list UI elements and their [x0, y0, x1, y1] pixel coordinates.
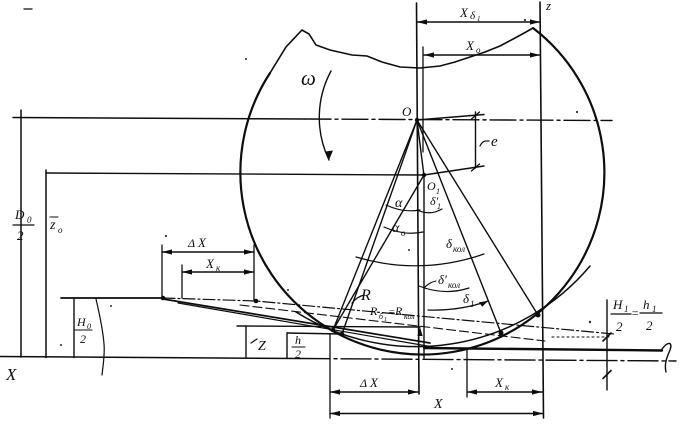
fan line O to entry dot2	[342, 120, 417, 334]
svg-text:0: 0	[27, 215, 32, 225]
alpha0 arc	[384, 227, 423, 233]
node entry corner	[161, 296, 166, 301]
roll center line (horizontal dash-dot through O)	[13, 118, 305, 120]
bottom witness at entry x	[329, 334, 331, 418]
fan line O to D1	[417, 120, 501, 333]
svg-text:X: X	[459, 5, 469, 20]
svg-text:δ: δ	[470, 10, 476, 22]
svg-text:δ: δ	[463, 291, 470, 306]
displaced roll arc (center O 417,119 R227)	[296, 266, 590, 347]
exit strip surface h1/2 level	[424, 348, 662, 351]
svg-text:X: X	[197, 235, 207, 250]
svg-text:кол: кол	[448, 280, 460, 290]
delta1' arc	[417, 209, 442, 213]
O1 level line y=173	[46, 173, 424, 175]
h level line	[287, 333, 342, 334]
alpha0 label	[392, 221, 406, 238]
svg-text:R: R	[369, 304, 378, 318]
node dot2	[340, 332, 345, 337]
svg-text:X: X	[433, 397, 443, 412]
D0/2 dimension line	[20, 110, 22, 357]
svg-text:H: H	[612, 297, 623, 312]
alpha arc	[386, 205, 420, 211]
line O-O1 extended vertical	[417, 120, 424, 358]
Z label with leader	[251, 339, 257, 343]
node dot1	[331, 328, 336, 333]
svg-text:D: D	[14, 207, 25, 222]
vertical through O	[417, 3, 420, 394]
delta_kol arc	[356, 254, 484, 266]
svg-text:z: z	[49, 218, 56, 233]
svg-text:h: h	[295, 333, 301, 347]
arrow on Z level line end	[417, 327, 422, 336]
svg-text:2: 2	[646, 318, 653, 333]
delta1 arc with arrow	[428, 301, 488, 310]
H0/2 dimension line	[73, 298, 75, 358]
svg-text:o: o	[58, 225, 63, 235]
z axis	[540, 2, 544, 418]
D0/2 label	[14, 207, 32, 243]
scan specks	[60, 19, 591, 370]
witness Xk left	[466, 348, 468, 397]
Rb1=Rkol label	[369, 304, 415, 323]
fan line O to entry dot1	[333, 120, 417, 330]
Z dimension vertical	[245, 326, 247, 358]
tick	[603, 371, 611, 379]
tick	[603, 333, 611, 341]
h/2 dimension vertical	[286, 333, 288, 359]
dim X0 top	[424, 54, 540, 56]
svg-text:h: h	[643, 297, 650, 312]
X axis	[0, 357, 300, 359]
svg-text:z: z	[545, 0, 551, 13]
dim dX bottom	[330, 391, 418, 393]
stray mark top-left	[24, 8, 32, 10]
wedge surface line S2	[178, 303, 433, 347]
roll circle (solid, center O1 424,172 R182)	[240, 28, 604, 355]
svg-text:ω: ω	[301, 66, 316, 90]
svg-text:H: H	[76, 315, 87, 329]
dim X bottom	[330, 413, 543, 415]
svg-text:кол: кол	[453, 244, 465, 254]
svg-text:δ′: δ′	[438, 272, 447, 287]
Z0 label	[49, 218, 63, 235]
svg-text:α: α	[395, 196, 403, 211]
svg-text:O: O	[402, 104, 412, 119]
svg-text:o: o	[476, 45, 481, 55]
O1 label	[427, 179, 440, 196]
svg-text:X: X	[369, 375, 379, 390]
break squiggle at right	[662, 343, 671, 372]
strip break wavy	[96, 299, 104, 375]
H1/2 = h1/2 label	[612, 297, 657, 334]
svg-text:X: X	[465, 38, 475, 53]
svg-text:кол: кол	[404, 312, 415, 321]
node on G1	[254, 299, 259, 304]
delta1' label	[430, 194, 441, 211]
svg-text:1: 1	[470, 299, 475, 309]
svg-text:o: o	[401, 228, 406, 238]
svg-text:X: X	[494, 375, 504, 390]
dim Xk bottom	[467, 391, 542, 393]
svg-text:R: R	[394, 304, 403, 318]
e dimension	[475, 112, 477, 168]
break wavy line at roll top	[270, 28, 533, 73]
entry strip surface H0/2 level	[61, 297, 163, 299]
node D2	[536, 313, 541, 318]
svg-text:=: =	[631, 306, 639, 320]
svg-text:Δ: Δ	[359, 376, 367, 390]
Z level line	[237, 326, 420, 327]
node O1	[422, 173, 426, 177]
svg-text:1: 1	[384, 317, 387, 323]
delta'_kol arc	[419, 286, 469, 292]
delta1 label	[463, 291, 475, 309]
H1 dotted level line	[552, 336, 612, 338]
dash-dot construction line G1	[163, 298, 614, 334]
dashed construction line G2	[240, 305, 545, 341]
node D1	[499, 331, 504, 336]
svg-text:O: O	[427, 179, 436, 193]
tilted line through O1	[424, 166, 484, 175]
dim Xb1 top	[417, 21, 540, 23]
H0/2 label	[76, 315, 91, 346]
svg-text:δ: δ	[446, 236, 453, 251]
H1/2 dimension vertical	[606, 300, 608, 390]
svg-text:e: e	[491, 134, 498, 150]
wedge surface line S1	[163, 299, 430, 343]
X0 witness line	[422, 47, 424, 152]
fan line O to D2	[417, 120, 538, 315]
delta'_kol label with leader	[424, 281, 436, 288]
svg-text:2: 2	[616, 319, 623, 334]
svg-text:1: 1	[437, 202, 441, 211]
svg-text:Z: Z	[258, 339, 266, 354]
R label with leader	[352, 295, 364, 303]
svg-text:R: R	[360, 287, 371, 304]
delta_kol label	[446, 236, 465, 254]
Z0 dimension line	[45, 170, 47, 358]
svg-text:2: 2	[17, 228, 24, 243]
svg-text:2: 2	[80, 332, 86, 346]
dim dX mid-left	[162, 251, 254, 253]
svg-text:к: к	[505, 382, 510, 392]
svg-text:1: 1	[624, 304, 629, 314]
dim Xk mid-left	[182, 271, 254, 273]
witness left	[181, 265, 183, 298]
svg-text:1: 1	[477, 15, 481, 23]
e leader	[480, 141, 489, 146]
tilted axis through O	[417, 115, 484, 121]
witness right	[253, 245, 255, 300]
svg-text:X: X	[205, 256, 215, 271]
svg-text:Δ: Δ	[187, 236, 195, 250]
witness left	[161, 245, 163, 297]
svg-text:X: X	[5, 365, 17, 384]
svg-text:2: 2	[295, 347, 301, 361]
svg-text:α: α	[392, 221, 400, 236]
h/2 label	[295, 333, 301, 361]
omega rotation arc	[319, 71, 331, 160]
fan line O1 to entry dot1	[333, 175, 424, 330]
node O	[415, 118, 419, 122]
